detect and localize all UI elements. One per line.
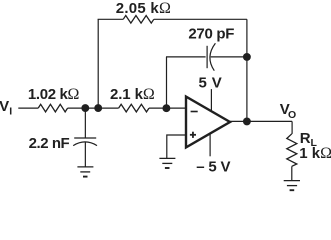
svg-text:V: V xyxy=(0,98,9,115)
node B junction dot xyxy=(94,104,102,112)
resistor R2 2.05 kOhm feedback xyxy=(116,0,171,23)
svg-text:2.2 nF: 2.2 nF xyxy=(29,135,70,152)
wire C2 riser xyxy=(166,57,168,108)
svg-text:2.05 kΩ: 2.05 kΩ xyxy=(116,0,171,17)
capacitor C1 2.2 nF xyxy=(29,108,97,166)
wire feedback left riser xyxy=(97,19,99,108)
wire output drop to RL xyxy=(291,121,293,133)
wire R1 to R3 xyxy=(68,107,119,109)
node E output junction dot xyxy=(243,117,251,125)
wire input lead xyxy=(18,107,38,109)
wire feedback top right xyxy=(154,18,247,20)
wire RL to ground xyxy=(291,166,293,180)
ground for RL xyxy=(284,181,300,191)
wire feedback top left xyxy=(98,18,124,20)
ground for non-inverting input xyxy=(159,158,175,168)
capacitor C2 270 pF xyxy=(166,26,247,71)
wire output riser xyxy=(246,57,248,122)
svg-text:270 pF: 270 pF xyxy=(188,26,234,43)
svg-text:– 5 V: – 5 V xyxy=(196,158,230,175)
wire feedback right riser xyxy=(246,19,248,57)
ground for C1 xyxy=(77,167,93,177)
node D junction dot xyxy=(243,53,251,61)
node A junction dot xyxy=(81,104,89,112)
svg-text:2.1 kΩ: 2.1 kΩ xyxy=(110,86,155,103)
wire op-amp output xyxy=(230,120,292,122)
resistor R3 2.1 kOhm xyxy=(110,86,155,112)
svg-text:I: I xyxy=(9,106,12,118)
wire non-inverting input to ground xyxy=(167,135,186,158)
negative supply pin -5 V xyxy=(196,135,230,176)
node C junction dot xyxy=(162,104,170,112)
svg-text:O: O xyxy=(288,109,296,121)
positive supply pin 5 V xyxy=(199,75,223,112)
svg-text:1 kΩ: 1 kΩ xyxy=(299,145,331,162)
op-amp U1 xyxy=(186,97,230,148)
resistor R1 1.02 kOhm xyxy=(28,86,80,112)
node VO output label xyxy=(280,101,296,121)
svg-text:1.02 kΩ: 1.02 kΩ xyxy=(28,86,80,103)
resistor RL 1 kOhm load xyxy=(287,130,331,166)
svg-text:5 V: 5 V xyxy=(199,75,223,92)
node VI input label xyxy=(0,98,12,117)
wire R3 to inverting input xyxy=(149,107,186,109)
